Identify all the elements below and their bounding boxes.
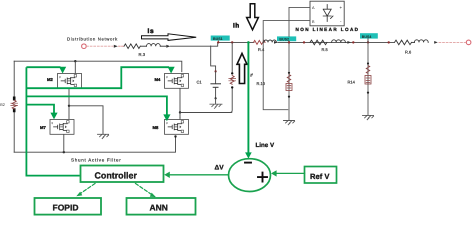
- SECTION:TOP: [67, 1, 471, 125]
- junction: [303, 41, 305, 43]
- resistor R3: [124, 44, 140, 49]
- wire: M4-M8 midpoint: [179, 89, 181, 118]
- svg-text:Distribution Network: Distribution Network: [67, 37, 118, 42]
- ground (R10): [284, 121, 295, 125]
- wire: red dash stub: [119, 45, 124, 47]
- gate arrow M7: [50, 113, 57, 120]
- wire: bridge left rail: [13, 61, 15, 152]
- battery B2 ticks: [13, 98, 16, 111]
- svg-text:BUS2: BUS2: [279, 38, 289, 42]
- wire: bridge top rail: [14, 61, 182, 71]
- wire: load port B: [263, 21, 310, 110]
- wire: bridge bottom rail: [14, 136, 175, 152]
- junction (M7 bottom): [63, 151, 65, 153]
- svg-text:ANN: ANN: [150, 203, 168, 213]
- svg-text:+: +: [340, 5, 343, 10]
- gate arrow M8: [163, 114, 170, 121]
- Ref V block: [305, 167, 337, 184]
- load R10 icon: [286, 75, 292, 91]
- annotation arrow Ih (down): [247, 4, 259, 30]
- MOSFET M2: [47, 74, 82, 89]
- svg-text:R.10: R.10: [257, 81, 266, 86]
- wire: arrow tick: [347, 41, 351, 44]
- wire: midpoint to ground: [69, 106, 103, 134]
- svg-text:R14: R14: [348, 79, 356, 84]
- RLC branch icon: [229, 76, 236, 85]
- svg-text:M2: M2: [47, 77, 53, 82]
- AC source (red circle): [82, 44, 87, 49]
- svg-text:Ref V: Ref V: [310, 172, 330, 181]
- wire: arrow tick: [166, 45, 170, 48]
- wire: gate line M2: [26, 66, 60, 68]
- branch R10: wire down: [288, 41, 290, 121]
- dashed link to ANN: [136, 184, 155, 197]
- wire: gate line M7: [26, 105, 54, 114]
- bus tag BUS2: [277, 36, 296, 41]
- wire: arrow tick: [434, 41, 438, 44]
- junction: [231, 41, 233, 43]
- wire: M8 top lead: [179, 118, 181, 120]
- MOSFET M7: [40, 120, 74, 135]
- bus tag BUS1: [211, 36, 230, 41]
- wire: gate trunk: [26, 67, 79, 175]
- gate wires (green): [26, 67, 169, 175]
- svg-text:C1: C1: [197, 80, 203, 85]
- junction: [288, 96, 290, 98]
- wire: Line V drop (green): [247, 43, 249, 153]
- inductor L3: [147, 44, 161, 47]
- svg-text:FOPID: FOPID: [53, 203, 79, 213]
- svg-text:Line V: Line V: [256, 142, 275, 149]
- gate arrow M4: [168, 67, 175, 74]
- FOPID block: [35, 198, 102, 215]
- dashed link to FOPID: [78, 184, 96, 196]
- plus sign: [258, 173, 267, 182]
- MOSFET M8: [153, 120, 189, 135]
- wire: M2-M7 midpoint: [68, 88, 70, 119]
- junction: [231, 86, 233, 88]
- junction (green tap): [247, 41, 250, 44]
- svg-text:Is: Is: [148, 28, 155, 35]
- inductor L6: [414, 40, 428, 43]
- wire: bus mid segment: [218, 41, 254, 43]
- svg-text:B2: B2: [0, 103, 5, 107]
- resistor R5: [310, 40, 327, 45]
- junction: [367, 62, 369, 64]
- ground (C1): [210, 104, 222, 108]
- svg-text:R.4: R.4: [258, 47, 265, 52]
- junction: [367, 41, 369, 43]
- wire: ellipse to Controller: [167, 174, 229, 176]
- svg-text:Ih: Ih: [233, 22, 240, 29]
- svg-text:Shunt Active Filter: Shunt Active Filter: [71, 157, 122, 162]
- wire: [412, 41, 415, 43]
- junction: [231, 72, 233, 74]
- junction: [217, 41, 219, 43]
- svg-text:R.3: R.3: [139, 52, 146, 57]
- bus tag BUS4: [360, 33, 378, 38]
- wire + arrow tick: [274, 41, 278, 44]
- svg-text:M8: M8: [153, 125, 159, 130]
- wire: gate line M4: [26, 67, 169, 88]
- wire: bus under BUS2: [278, 41, 394, 43]
- wire: gate line M8: [26, 96, 167, 115]
- load R14 icon: [365, 66, 371, 85]
- junction: [288, 41, 290, 43]
- wire: red dashed to load end: [439, 41, 465, 43]
- NON LINEAR LOAD block: [310, 1, 344, 26]
- SECTION:MIDDLE: [180, 43, 253, 112]
- inductor L5: [332, 40, 346, 43]
- svg-text:R.5: R.5: [322, 47, 329, 52]
- wire: bus left run: [171, 42, 218, 46]
- ANN block: [127, 198, 196, 215]
- wire: [140, 45, 146, 47]
- resistor R6: [395, 40, 412, 45]
- SECTION:BOTTOM: [35, 43, 337, 215]
- junction node: [179, 111, 181, 113]
- summing junction: [229, 159, 271, 192]
- wire: red dashed feeder: [87, 45, 113, 47]
- svg-text:Controller: Controller: [95, 170, 138, 180]
- diode inside load: [323, 5, 333, 22]
- junction: [388, 41, 390, 43]
- wire: load port A: [289, 7, 310, 36]
- Controller block: [81, 166, 164, 183]
- svg-text:M4: M4: [155, 77, 161, 82]
- ground (R14): [363, 115, 374, 119]
- svg-text:BUS4: BUS4: [362, 35, 372, 39]
- RLC branch B2: [11, 100, 18, 109]
- junction: [367, 92, 369, 94]
- junction node: [68, 105, 70, 107]
- annotation arrow Is: [142, 34, 197, 41]
- wire: arrow tick into R3: [114, 45, 118, 48]
- branch R14: wire down: [367, 43, 369, 115]
- junction: [288, 72, 290, 74]
- svg-text:M7: M7: [40, 125, 46, 130]
- terminal (red circle): [466, 40, 471, 45]
- wire: M7 bottom lead: [63, 135, 65, 152]
- svg-text:ΔV: ΔV: [215, 165, 225, 172]
- SECTION:BRIDGE: [0, 60, 232, 162]
- wire: midpoint to C-branch: [180, 111, 232, 113]
- junction: [174, 135, 176, 137]
- junction: [215, 97, 217, 99]
- svg-text:R.6: R.6: [405, 50, 412, 55]
- junction: [215, 70, 217, 72]
- junction (M2 top): [74, 60, 76, 62]
- wire: bus tap to C1: [211, 46, 216, 71]
- junction: [352, 41, 354, 43]
- wire: RefV to ellipse: [274, 172, 305, 174]
- svg-text:NON LINEAR LOAD: NON LINEAR LOAD: [296, 27, 360, 32]
- svg-text:BUS1: BUS1: [213, 37, 223, 41]
- inductor L4: [264, 40, 277, 42]
- wire: BUS4 tap: [367, 39, 369, 43]
- capacitor C1: [215, 72, 217, 83]
- branch: voltage tap: [180, 43, 232, 112]
- ground (bridge mid): [98, 134, 109, 138]
- wire: M2 drain: [74, 61, 76, 73]
- MOSFET M4: [155, 74, 189, 89]
- minus sign: [245, 162, 251, 164]
- annotation arrow If (up): [237, 53, 247, 83]
- gate arrow M2: [59, 67, 66, 74]
- wire: bus segment left: [160, 45, 166, 47]
- wire: BUS1 tap: [217, 41, 219, 43]
- resistor R4 (red): [254, 40, 266, 44]
